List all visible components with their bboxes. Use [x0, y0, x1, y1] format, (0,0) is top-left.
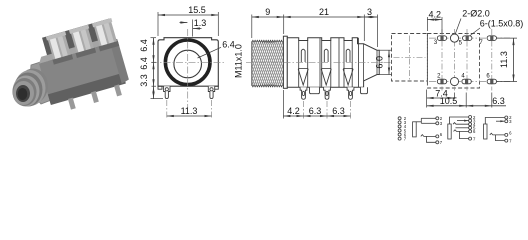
front view left pin [164, 86, 170, 98]
svg-text:1.3: 1.3 [194, 18, 207, 28]
svg-text:3: 3 [367, 7, 372, 17]
dimension chain left 6.4 6.4 3.3 [151, 37, 157, 39]
footprint bushing centerline vertical [408, 36, 410, 80]
dimension 7.4 footprint [426, 90, 428, 108]
footprint pad centerline vertical [441, 29, 443, 91]
pad 6 [487, 79, 496, 84]
centerline vertical front view [187, 29, 189, 108]
svg-text:6.4: 6.4 [139, 57, 149, 70]
svg-text:10.5: 10.5 [440, 96, 458, 106]
pad 2 [437, 79, 446, 84]
schematic 1 sleeve bar [413, 122, 417, 137]
schematic 4 sleeve bar [484, 124, 487, 139]
footprint body outline dashed [427, 34, 479, 89]
schematic 2 switch contact wire to terminal 6 [421, 135, 436, 137]
schematic 2 wire to terminal 2 [421, 117, 436, 119]
svg-text:6-(1.5x0.8): 6-(1.5x0.8) [480, 19, 524, 29]
schematic 1 terminals [398, 117, 401, 120]
dimension 4.2 footprint [441, 17, 443, 33]
centerline horizontal side view [246, 61, 392, 63]
footprint centerline row2 [429, 81, 510, 83]
svg-text:15.5: 15.5 [188, 5, 206, 15]
side view mounting flange [283, 36, 287, 88]
3D photo of phone jack [13, 18, 133, 115]
svg-text:6.3: 6.3 [332, 106, 345, 116]
schematic 3 arrow wire to terminal 3 [457, 120, 469, 122]
schematic 3 terminal 5 [469, 126, 472, 129]
dimension 15.5 front width [157, 12, 159, 36]
svg-text:3.3: 3.3 [139, 74, 149, 87]
side view leg pin 2 [324, 87, 331, 99]
mount hole bottom [450, 77, 458, 85]
front view corner tabs [158, 86, 162, 89]
front view jack bore (inner circle) [174, 50, 202, 78]
schematic 3 terminal 3 [469, 119, 472, 122]
footprint pad centerline vertical [491, 29, 493, 91]
side view inner vertical lines [298, 41, 300, 88]
svg-text:6.0: 6.0 [375, 56, 385, 69]
dimension 11.3 front pins [166, 100, 168, 119]
schematic 3 switch wire to terminal 4 [453, 123, 469, 125]
pad 3 [437, 36, 446, 41]
schematic 2 branch wire to terminal 7 [427, 136, 436, 142]
pad 4 [462, 79, 471, 84]
leader 6.4 inner circle [198, 47, 222, 58]
schematic 3 terminal 7 [469, 137, 472, 140]
dimension 9 thread length [251, 15, 253, 39]
side view leg pin 3 [347, 87, 354, 99]
footprint pad centerline vertical [454, 29, 456, 91]
svg-text:21: 21 [319, 7, 329, 17]
dimension 6.0 tip height [380, 49, 393, 51]
dimension 3 tip length [377, 15, 379, 48]
schematic 3 sleeve bar [448, 124, 451, 139]
pad 5 [463, 36, 472, 41]
schematic 3 switch wire to terminal 6 [454, 130, 469, 132]
front view mounting ring (outer circle) [165, 40, 210, 85]
schematic 3 lead to terminal 2 [450, 117, 469, 124]
svg-text:4.2: 4.2 [428, 10, 441, 20]
dimension 11.3 footprint [497, 37, 517, 39]
schematic 4 arrow wire to terminal 3 [496, 120, 504, 122]
side view body outline [287, 38, 379, 88]
mount hole top [450, 34, 458, 42]
schematic 3 terminal 4 [469, 123, 472, 126]
svg-text:4.2: 4.2 [287, 106, 300, 116]
schematic 2 wire to terminal 3 [421, 122, 436, 124]
side view leg pin 1 [300, 87, 307, 99]
svg-text:11.3: 11.3 [499, 51, 509, 68]
dimension 10.5 footprint [465, 93, 467, 108]
side view contact springs [301, 49, 305, 62]
schematic 3 terminal 6 [469, 130, 472, 133]
schematic 4 switch wire to terminal 6 [490, 133, 505, 135]
schematic 3 terminal 2 [469, 116, 472, 119]
schematic 2 sleeve lead wire [416, 121, 421, 123]
dimension 4.2 6.3 6.3 side legs [282, 90, 284, 119]
side view thread (hatched) [252, 40, 283, 42]
schematic 4 branch wire to terminal 7 [496, 135, 505, 141]
side view stub leg [310, 87, 320, 93]
svg-text:6.3: 6.3 [492, 96, 505, 106]
centerline horizontal front view [151, 61, 225, 63]
side view right stub leg [361, 87, 368, 93]
svg-text:M11x1.0: M11x1.0 [234, 44, 244, 78]
footprint pad centerline vertical [466, 29, 468, 91]
front view right pin [208, 86, 214, 98]
front view body [158, 38, 218, 86]
dimension 6.3 footprint [491, 93, 493, 108]
footprint centerline row1 [429, 37, 510, 39]
svg-text:9: 9 [265, 7, 270, 17]
svg-text:6.4: 6.4 [139, 39, 149, 52]
dimension 1.3 [192, 20, 194, 37]
pad 7 [487, 36, 496, 41]
schematic 3 wire to terminal 5 [456, 127, 469, 129]
schematic 4 lead to terminal 2 [485, 118, 505, 125]
footprint bushing outline dashed [392, 34, 428, 82]
svg-text:2-Ø2.0: 2-Ø2.0 [462, 9, 490, 19]
dimension 21 body length [363, 15, 365, 42]
svg-text:6.3: 6.3 [309, 106, 322, 116]
schematic 3 branch wire to terminal 7 [460, 131, 469, 138]
svg-text:11.3: 11.3 [181, 106, 198, 116]
footprint bushing centerline horizontal [394, 56, 426, 58]
